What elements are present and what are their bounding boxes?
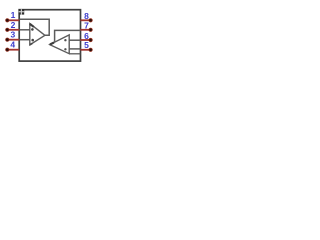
op-amp A plus input mark — [31, 39, 34, 42]
op-amp B apex emphasis — [50, 43, 54, 45]
wire pin 4 — [8, 49, 19, 51]
op-amp A top corner emphasis — [30, 24, 34, 27]
svg-text:7: 7 — [84, 21, 89, 31]
node pin 4 — [6, 48, 9, 51]
wire pin 1 — [8, 19, 19, 21]
op-amp B minus input mark — [64, 39, 66, 41]
background — [0, 0, 100, 70]
wire pin 6 — [81, 39, 91, 41]
wire pin 3 — [8, 39, 19, 41]
pin 1 corner marker — [19, 9, 25, 15]
op-amp B triangle — [50, 35, 69, 54]
pin 5 internal stub — [69, 48, 80, 50]
net pin1 internal wire — [20, 19, 50, 35]
node pin 7 — [89, 28, 92, 31]
pin 6 internal stub — [69, 39, 80, 41]
wire pin 5 — [81, 49, 91, 51]
svg-text:3: 3 — [11, 29, 16, 39]
node pin 1 — [6, 19, 9, 22]
svg-text:4: 4 — [10, 40, 15, 50]
wire pin 8 — [81, 19, 91, 21]
node pin 5 — [89, 48, 92, 51]
node pin 8 — [89, 19, 92, 22]
op-amp A bottom corner emphasis — [30, 43, 33, 45]
wire pin 2 — [8, 29, 19, 31]
op-amp A minus input mark — [31, 28, 34, 31]
wire pin 7 — [81, 29, 91, 31]
amp B bottom corner stub — [69, 53, 80, 55]
pin 3 internal stub — [20, 39, 30, 41]
op-amp B plus input mark — [64, 48, 66, 50]
svg-text:5: 5 — [84, 40, 89, 50]
svg-text:1: 1 — [11, 10, 16, 20]
svg-text:8: 8 — [84, 11, 89, 21]
node pin 3 — [6, 38, 9, 41]
node pin 6 — [89, 38, 92, 41]
net pin7 internal wire — [55, 30, 81, 41]
node pin 2 — [6, 28, 9, 31]
op-amp U1 body — [19, 10, 80, 61]
op-amp A triangle — [30, 24, 45, 45]
pin 2 internal stub — [20, 29, 30, 31]
